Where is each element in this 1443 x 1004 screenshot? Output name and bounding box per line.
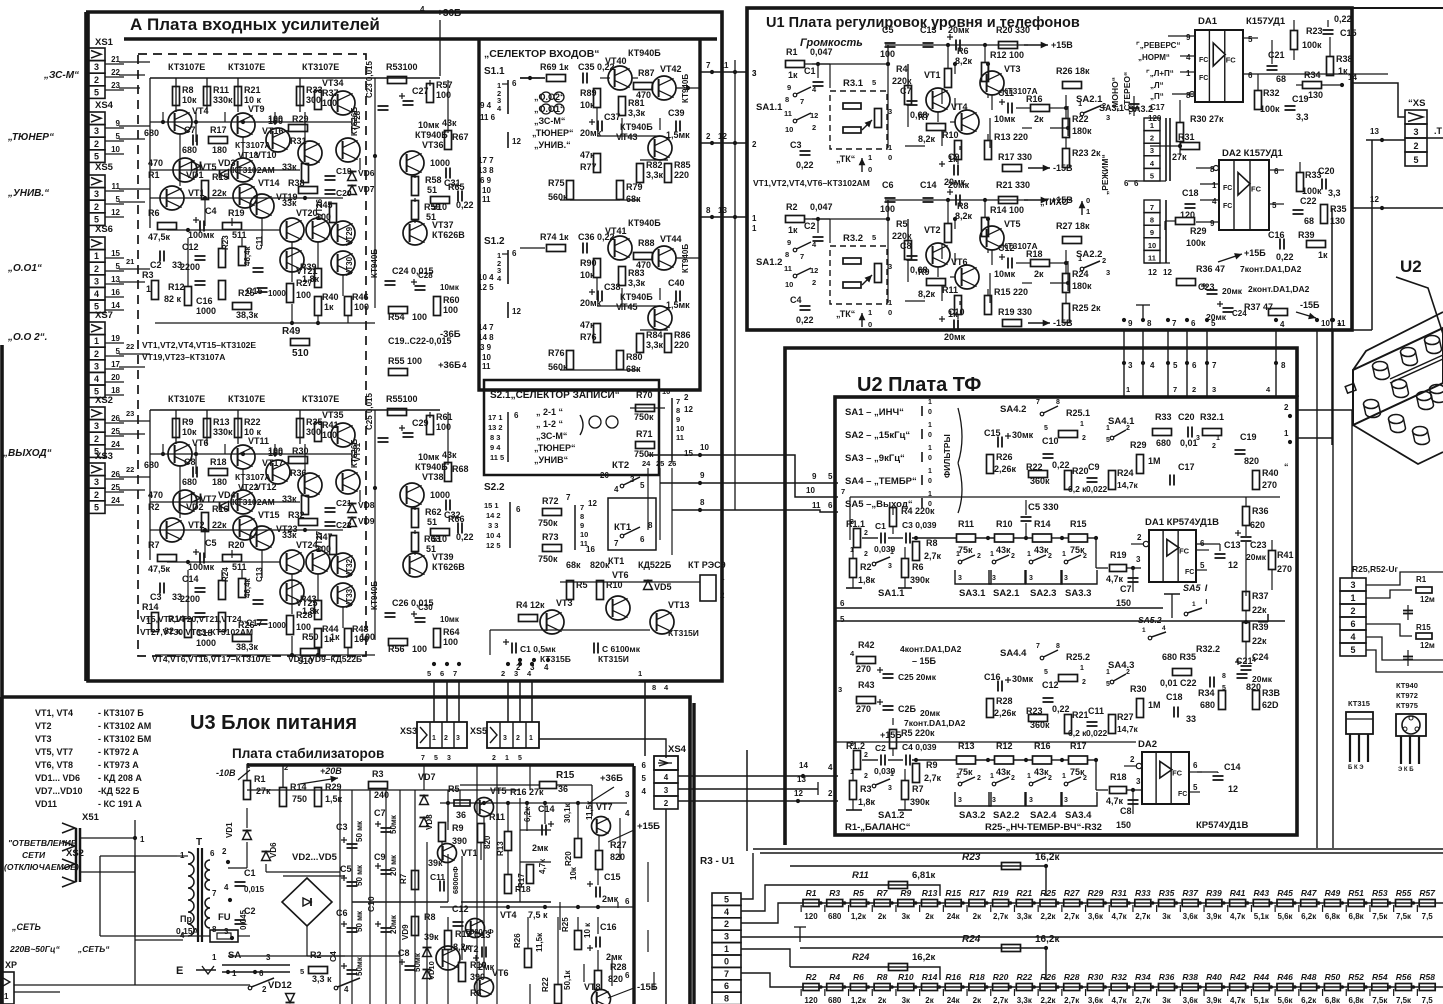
svg-text:С21: С21 [1268,50,1285,60]
svg-text:„ТЮНЕР“: „ТЮНЕР“ [7,132,54,143]
svg-text:C40: C40 [668,278,685,288]
svg-text:13 2: 13 2 [488,423,503,432]
svg-text:3: 3 [94,126,99,136]
svg-text:5: 5 [518,755,522,762]
svg-text:SA4.4: SA4.4 [1000,648,1027,659]
svg-text:8: 8 [1222,673,1226,680]
svg-text:- КС 191 А: - КС 191 А [98,799,142,809]
svg-text:5: 5 [94,87,99,97]
svg-text:4: 4 [1252,657,1256,664]
svg-text:C5: C5 [205,538,217,548]
svg-text:3: 3 [94,477,99,487]
svg-text:5,6к: 5,6к [1277,912,1293,921]
svg-text:5: 5 [1150,171,1154,180]
svg-text:0: 0 [724,956,729,966]
svg-text:300: 300 [306,427,321,437]
svg-text:- КТ3102 БМ: - КТ3102 БМ [98,734,151,744]
svg-text:12: 12 [810,266,818,275]
svg-text:„ЗС-М“: „ЗС-М“ [43,70,79,81]
svg-text:0,22: 0,22 [1276,252,1294,262]
svg-text:4,7к: 4,7к [1230,912,1246,921]
svg-text:C2: C2 [150,260,162,270]
svg-text:22к: 22к [212,188,227,198]
svg-text:2: 2 [492,755,496,762]
svg-text:11: 11 [784,264,792,273]
svg-text:511: 511 [232,562,247,572]
resistor R71 [636,442,655,449]
wire U2 out pin1 [1297,437,1332,439]
U2 box [835,397,1297,835]
svg-text:С10: С10 [1042,436,1059,446]
svg-text:VT27: VT27 [315,530,324,550]
svg-text:4: 4 [420,5,425,14]
svg-text:SA1 – „ИНЧ“: SA1 – „ИНЧ“ [845,407,904,418]
svg-text:8: 8 [706,206,711,215]
svg-text:7,5к: 7,5к [1372,996,1388,1004]
svg-text:150: 150 [1116,598,1131,608]
svg-text:R58: R58 [1419,972,1435,982]
svg-text:3,9к: 3,9к [1206,996,1222,1004]
U3 stab border [203,731,247,764]
svg-text:100к: 100к [1302,186,1322,196]
svg-text:FC: FC [1185,569,1194,576]
svg-text:3: 3 [94,62,99,72]
svg-text:16,2к: 16,2к [1035,934,1060,945]
svg-text:1: 1 [1086,207,1090,216]
svg-text:3,6к: 3,6к [1088,912,1104,921]
svg-text:SA1.1: SA1.1 [878,588,905,599]
svg-text:VT42: VT42 [660,64,682,74]
svg-text:3: 3 [94,276,99,286]
svg-text:R7: R7 [918,112,930,122]
svg-text:9: 9 [580,521,584,530]
svg-text:180к: 180к [1072,126,1092,136]
svg-text:50мк: 50мк [389,814,398,834]
wire down x747 [746,750,748,851]
svg-text:VD9: VD9 [358,516,375,526]
svg-text:470: 470 [148,490,163,500]
svg-text:R25 2к: R25 2к [1072,303,1101,313]
svg-text:180к: 180к [1072,281,1092,291]
svg-text:2,7к: 2,7к [924,773,942,783]
svg-text:9: 9 [676,415,680,424]
svg-text:R32: R32 [288,510,305,520]
svg-text:10к: 10к [569,866,578,880]
svg-text:270: 270 [1277,564,1292,574]
svg-text:R25: R25 [238,288,255,298]
svg-text:2: 2 [684,393,689,402]
svg-text:R70: R70 [636,390,653,400]
svg-text:R10: R10 [898,972,914,982]
svg-text:12: 12 [810,111,818,120]
svg-text:1: 1 [1078,254,1082,263]
svg-text:R25: R25 [1040,888,1056,898]
svg-text:„ 2-1 “: „ 2-1 “ [536,407,563,417]
svg-text:3: 3 [514,669,518,678]
svg-text:11: 11 [676,433,684,442]
svg-text:3: 3 [503,735,507,742]
svg-text:КТ1: КТ1 [614,522,632,533]
wire XS5 to XS4 [539,739,666,758]
svg-text:R26 18к: R26 18к [1056,66,1090,76]
svg-text:R80: R80 [626,352,643,362]
svg-text:R28: R28 [996,696,1013,706]
resistor R55 [389,369,408,376]
svg-text:КТ3107А: КТ3107А [235,472,271,482]
svg-text:1: 1 [990,551,994,558]
svg-text:R17: R17 [969,888,986,898]
resistor R11 bridge [800,885,940,896]
svg-text:ХS3: ХS3 [400,726,417,736]
svg-text:R61: R61 [436,412,453,422]
svg-text:51: 51 [427,517,437,527]
svg-text:R19: R19 [1110,550,1127,560]
svg-text:R22: R22 [244,417,261,427]
resistor ladder row 1 [800,902,1443,904]
svg-text:5,1к: 5,1к [1254,996,1270,1004]
svg-text:+15Б: +15Б [637,821,660,832]
svg-text:S1.1: S1.1 [484,66,505,77]
svg-text:R40: R40 [322,292,339,302]
svg-text:VT17: VT17 [262,458,284,468]
svg-text:5: 5 [1193,783,1198,792]
svg-text:С18: С18 [1182,188,1199,198]
svg-text:С19: С19 [1292,94,1309,104]
svg-text:6: 6 [840,599,845,608]
svg-text:„: „ [1337,316,1342,326]
svg-text:С16: С16 [600,922,617,932]
svg-text:R2: R2 [860,562,872,572]
svg-text:4: 4 [614,485,619,494]
svg-text:2: 2 [1082,435,1086,442]
svg-text:12 5: 12 5 [486,541,501,550]
svg-text:6,8к: 6,8к [1325,996,1341,1004]
svg-text:Е: Е [176,965,183,977]
svg-text:VT26: VT26 [315,198,324,218]
svg-text:1: 1 [868,153,872,162]
svg-text:240: 240 [374,790,389,800]
svg-text:FC: FC [1179,546,1190,555]
svg-text:R72: R72 [542,496,559,506]
svg-text:1: 1 [724,944,729,954]
svg-text:R1: R1 [806,888,817,898]
svg-text:24: 24 [111,496,120,505]
svg-text:1: 1 [928,399,932,406]
U3 wires main [80,871,135,873]
svg-text:5: 5 [872,78,876,87]
svg-text:3: 3 [888,563,892,570]
svg-text:12м: 12м [1420,595,1435,604]
svg-text:17: 17 [111,360,120,369]
svg-text:3: 3 [1136,555,1141,564]
svg-text:„ТЮНЕР“: „ТЮНЕР“ [532,128,574,138]
svg-text:3: 3 [752,69,757,78]
svg-text:С4 0,039: С4 0,039 [902,742,937,752]
resistor R29 U3 [315,788,322,807]
svg-text:R36: R36 [1252,506,1269,516]
svg-text:R11: R11 [852,870,869,881]
svg-text:1: 1 [720,573,725,582]
svg-text:1к: 1к [324,302,334,312]
svg-text:3: 3 [724,932,729,942]
svg-text:3к: 3к [1162,912,1171,921]
svg-text:2,7к: 2,7к [993,996,1009,1004]
svg-text:+15Б: +15Б [880,730,902,740]
svg-text:20мк: 20мк [1206,312,1227,322]
svg-text:R18: R18 [1026,249,1043,259]
svg-text:100: 100 [880,204,895,214]
svg-text:КТ3107А: КТ3107А [235,140,271,150]
svg-text:39к: 39к [428,858,443,868]
capacitor C1 bottom [503,641,509,643]
resistor R24 bridge [800,948,1046,980]
ladder connector [712,893,741,905]
svg-text:68к: 68к [626,364,641,374]
svg-text:130: 130 [1308,90,1323,100]
svg-text:0: 0 [868,320,872,329]
wire XS1 to board [119,61,150,63]
svg-text:2,7к: 2,7к [1135,912,1151,921]
svg-text:0,22: 0,22 [1052,460,1070,470]
svg-text:10мк: 10мк [418,452,440,462]
svg-text:3: 3 [224,927,229,936]
svg-text:8 3: 8 3 [490,433,500,442]
svg-text:14: 14 [1348,73,1357,82]
svg-text:R68: R68 [452,464,469,474]
svg-text:5: 5 [116,195,121,204]
selector amplifier ch1 [547,75,566,82]
resistor R39 U2 [1243,623,1250,642]
svg-text:R22: R22 [541,977,550,992]
svg-text:43к: 43к [442,118,457,128]
svg-text:5: 5 [1200,561,1205,570]
svg-text:3: 3 [1106,113,1110,122]
svg-text:10: 10 [785,125,793,134]
svg-text:3: 3 [888,262,892,271]
svg-text:11: 11 [812,501,821,510]
svg-text:39к: 39к [424,932,439,942]
svg-text:R7: R7 [912,784,924,794]
svg-text:КТ3107Е: КТ3107Е [168,62,205,72]
svg-text:R39: R39 [1298,230,1315,240]
svg-text:3: 3 [958,575,962,582]
svg-text:2к: 2к [925,996,934,1004]
svg-text:68к: 68к [626,194,641,204]
svg-text:2: 2 [1083,775,1087,782]
svg-text:7: 7 [1172,319,1177,328]
svg-text:15: 15 [111,249,120,258]
svg-text:VT44: VT44 [660,234,682,244]
svg-text:180: 180 [212,145,227,155]
svg-text:R38: R38 [1182,972,1198,982]
svg-text:50мк: 50мк [355,956,364,976]
svg-text:С15: С15 [604,872,621,882]
svg-text:10мк: 10мк [440,615,460,624]
svg-text:4: 4 [1350,632,1355,642]
svg-text:6: 6 [1274,167,1279,176]
svg-text:68: 68 [1304,216,1314,226]
svg-text:DA2: DA2 [1138,739,1157,750]
svg-text:5: 5 [116,347,121,356]
svg-text:30,1к: 30,1к [563,802,572,823]
svg-text:R50: R50 [302,632,319,642]
svg-text:КТ315И: КТ315И [598,654,629,664]
svg-text:1: 1 [928,422,932,429]
svg-text:R4 220к: R4 220к [901,506,935,516]
svg-text:5: 5 [116,262,121,271]
svg-text:„ТК“: „ТК“ [836,154,855,164]
svg-text:R47: R47 [1301,888,1318,898]
svg-text:4,7к: 4,7к [1106,796,1124,806]
wire X51 net [80,837,135,839]
svg-text:КТ975: КТ975 [1396,701,1418,710]
resistor R73 [543,545,562,552]
svg-text:9 4: 9 4 [480,101,492,110]
svg-text:VT2: VT2 [924,225,941,235]
svg-text:10: 10 [700,443,709,452]
svg-text:3,3: 3,3 [1328,188,1341,198]
svg-text:4: 4 [224,883,229,892]
svg-text:0: 0 [888,308,892,317]
svg-text:4: 4 [1162,625,1166,632]
svg-text:100к: 100к [1186,238,1206,248]
svg-text:7: 7 [1150,203,1154,212]
svg-text:9: 9 [787,83,791,92]
svg-text:R9: R9 [900,888,911,898]
svg-text:27к: 27к [256,786,271,796]
svg-text:Э К Б: Э К Б [1398,767,1414,773]
svg-text:С1 0,5мк: С1 0,5мк [520,644,556,654]
svg-text:5,1к: 5,1к [1254,912,1270,921]
svg-text:33к: 33к [282,198,297,208]
svg-text:R23: R23 [1026,706,1043,716]
svg-text:VD1... VD6: VD1... VD6 [35,773,80,783]
wire grid channel 1 [150,121,352,123]
svg-text:0,22: 0,22 [1052,704,1070,714]
svg-text:2: 2 [1130,755,1135,764]
svg-text:0,01: 0,01 [1180,438,1198,448]
svg-text:220: 220 [674,170,689,180]
capacitor C16 U1 [1279,239,1281,250]
svg-text:9: 9 [1150,228,1154,237]
svg-text:R35: R35 [1159,888,1175,898]
svg-text:4: 4 [544,663,549,672]
svg-text:25: 25 [111,427,120,436]
svg-text:16,2к: 16,2к [1035,852,1060,863]
svg-text:R9: R9 [452,823,464,833]
svg-text:VT43: VT43 [616,132,638,142]
svg-text:Пр: Пр [180,914,192,924]
svg-text:1: 1 [1284,429,1289,438]
svg-text:VT5, VT7: VT5, VT7 [35,747,73,757]
svg-text:36: 36 [558,784,568,794]
svg-text:220: 220 [674,340,689,350]
svg-text:1000: 1000 [196,306,216,316]
svg-text:2: 2 [1192,385,1196,394]
svg-text:7,5к: 7,5к [1396,912,1412,921]
svg-text:R14: R14 [922,972,938,982]
svg-text:DA1: DA1 [1198,16,1218,27]
svg-text:51: 51 [427,185,437,195]
svg-text:22: 22 [111,68,120,77]
svg-text:180: 180 [212,477,227,487]
svg-text:VT45: VT45 [616,302,638,312]
block A outer frame [86,12,722,681]
svg-text:VT33: VT33 [345,588,354,608]
wire U2 out pin2 [1297,409,1352,411]
svg-text:24: 24 [111,440,120,449]
svg-text:VT3: VT3 [1004,64,1021,74]
wire A to U1 top [700,71,747,73]
svg-text:7: 7 [1212,361,1217,370]
svg-text:R56: R56 [1396,972,1412,982]
svg-text:VT6: VT6 [612,570,629,580]
svg-text:R24: R24 [852,952,870,963]
svg-text:R4: R4 [829,972,840,982]
svg-text:8,2к: 8,2к [918,134,936,144]
svg-text:2: 2 [720,591,725,600]
svg-text:20мк: 20мк [1246,552,1267,562]
svg-text:SA3.3: SA3.3 [1065,588,1091,599]
svg-text:R36: R36 [1159,972,1175,982]
svg-text:Плата стабилизаторов: Плата стабилизаторов [232,746,384,761]
svg-text:SA4.2: SA4.2 [1000,404,1026,415]
svg-text:R15: R15 [1416,623,1431,632]
svg-text:1: 1 [1062,551,1066,558]
svg-text:100мк: 100мк [188,562,215,572]
svg-text:10 4: 10 4 [486,531,501,540]
svg-text:1: 1 [956,773,960,780]
svg-text:SA3 – „9кГц“: SA3 – „9кГц“ [845,453,905,464]
svg-text:1: 1 [1106,425,1110,432]
U2 legend dashes [921,406,923,416]
svg-text:120: 120 [804,912,818,921]
svg-text:22к: 22к [1252,636,1267,646]
svg-text:750: 750 [292,794,307,804]
svg-text:-15Б: -15Б [637,982,658,993]
svg-text:5: 5 [1106,437,1110,444]
svg-text:3: 3 [1212,385,1216,394]
svg-text:0,22: 0,22 [796,160,814,170]
svg-text:12: 12 [1228,560,1238,570]
svg-text:R25: R25 [561,917,570,932]
svg-text:1к: 1к [1338,66,1348,76]
svg-text:10 к: 10 к [583,922,592,938]
wire U1 U2 bus [1123,330,1125,397]
svg-text:C13: C13 [255,567,264,582]
svg-text:12: 12 [588,499,597,508]
svg-text:6: 6 [514,411,519,420]
wire U2 top rail [850,496,1280,498]
svg-text:8: 8 [652,683,656,692]
svg-text:С25 20мк: С25 20мк [898,672,937,682]
svg-text:820: 820 [610,852,625,862]
svg-text:11: 11 [112,182,121,191]
svg-text:R30 27к: R30 27к [1190,114,1224,124]
svg-text:R1: R1 [254,774,266,784]
svg-text:10: 10 [111,145,120,154]
U1 power feed [1218,254,1242,262]
wire U3 vert cols [339,790,341,1004]
svg-text:3: 3 [992,797,996,804]
svg-text:R31: R31 [290,136,307,146]
R25 wiring lower [1366,624,1412,636]
svg-text:680: 680 [182,145,197,155]
svg-text:R48: R48 [1301,972,1317,982]
svg-text:5: 5 [1350,645,1355,655]
svg-text:C1: C1 [804,66,816,76]
svg-text:С9: С9 [374,852,386,862]
